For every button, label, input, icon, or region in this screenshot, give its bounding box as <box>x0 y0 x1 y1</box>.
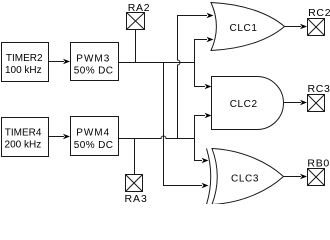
or-gate CLC1 <box>211 3 285 51</box>
svg-text:CLC3: CLC3 <box>231 174 259 185</box>
svg-text:50% DC: 50% DC <box>74 140 114 151</box>
svg-text:RC2: RC2 <box>308 7 330 19</box>
wire RA2 drop <box>135 30 137 63</box>
arrow into RC2 <box>300 24 307 29</box>
pad RA3 <box>126 175 143 192</box>
svg-text:TIMER4: TIMER4 <box>5 128 42 139</box>
arrow into PWM4 <box>63 134 70 139</box>
wire CLC2 output to RC3 <box>284 102 302 104</box>
and-gate CLC2 <box>212 77 284 130</box>
wire PWM3 up to CLC1 lower input <box>195 40 208 63</box>
arrow into CLC1 upper <box>207 13 214 18</box>
wire PWM3 bus down to CLC3 lower input <box>164 63 203 186</box>
block TIMER2 <box>2 43 49 82</box>
wire CLC3 output to RB0 <box>284 176 302 178</box>
arrow into RC3 <box>300 100 307 105</box>
block TIMER4 <box>2 118 49 157</box>
arrow into RB0 <box>300 174 307 179</box>
arrow into CLC2 upper <box>205 84 212 89</box>
svg-text:TIMER2: TIMER2 <box>6 53 43 64</box>
pad RC3 <box>308 95 325 112</box>
arrow into CLC1 lower <box>207 37 214 42</box>
svg-text:100 kHz: 100 kHz <box>5 65 42 76</box>
svg-text:200 kHz: 200 kHz <box>5 140 42 151</box>
pad RB0 <box>308 169 325 186</box>
svg-text:PWM4: PWM4 <box>76 128 110 139</box>
block PWM3 <box>71 43 119 81</box>
wire PWM4 down to CLC3 upper input <box>195 139 203 161</box>
wire TIMER2 to PWM3 <box>49 61 65 63</box>
wire PWM3 output net <box>119 62 195 64</box>
svg-text:PWM3: PWM3 <box>76 53 110 64</box>
wire RA3 drop <box>134 139 136 175</box>
arrow into PWM3 <box>63 59 70 64</box>
wire PWM3 down to CLC2 upper input <box>195 63 206 87</box>
xor-gate CLC3 input arc <box>207 149 211 205</box>
svg-text:CLC2: CLC2 <box>230 99 258 110</box>
wire PWM4 up to CLC2 lower input <box>195 116 206 139</box>
svg-text:RA2: RA2 <box>128 2 151 14</box>
svg-text:50% DC: 50% DC <box>74 66 114 77</box>
wire TIMER4 to PWM4 <box>49 136 65 138</box>
svg-text:CLC1: CLC1 <box>230 23 258 34</box>
wire PWM4 output net with hop over PWM3 bus <box>119 136 195 139</box>
wire PWM4 bus up to CLC1 upper input, hop over PWM3 net <box>178 16 208 139</box>
wire CLC1 output to RC2 <box>285 26 302 28</box>
svg-text:RC3: RC3 <box>307 83 330 95</box>
xor-gate CLC3 body <box>212 149 284 205</box>
arrowheads <box>63 13 307 188</box>
svg-text:RB0: RB0 <box>307 157 330 169</box>
arrow into CLC2 lower <box>205 113 212 118</box>
block PWM4 <box>71 117 119 156</box>
pad RC2 <box>308 19 325 36</box>
svg-text:RA3: RA3 <box>124 193 147 204</box>
pad RA2 <box>127 13 145 30</box>
arrow into CLC3 lower <box>202 183 209 188</box>
arrow into CLC3 upper <box>202 158 209 163</box>
